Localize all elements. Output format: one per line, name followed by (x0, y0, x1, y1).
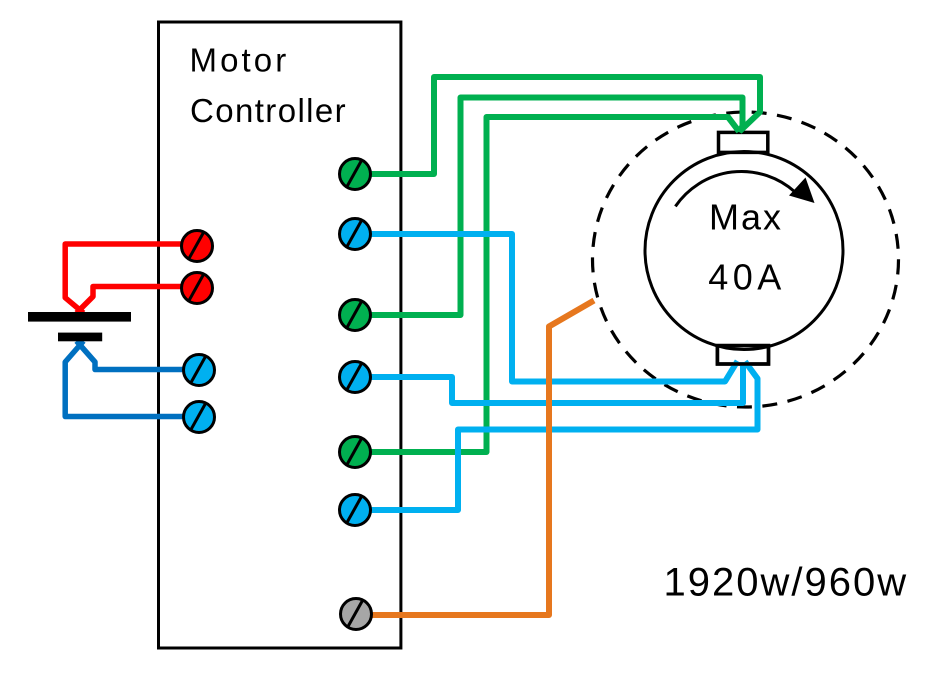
motor bottom brush terminal block (717, 346, 768, 364)
motor rotation arrow arc (675, 171, 795, 206)
wire orange O1 terminal T7 to motor case (368, 301, 594, 616)
terminal P1 red (182, 231, 213, 262)
svg-text:Motor: Motor (190, 42, 290, 79)
motor bottom brush terminal block (border over wires) (717, 346, 768, 364)
terminal T2 blue (340, 219, 371, 250)
wire green G3 terminal T5 to motor+ (368, 117, 739, 452)
terminal P3 blue (184, 355, 215, 386)
svg-text:1920w/960w: 1920w/960w (664, 561, 909, 605)
svg-text:40A: 40A (708, 257, 786, 298)
terminal P4 blue (184, 402, 215, 433)
svg-text:Max: Max (709, 197, 783, 238)
terminal T6 blue (340, 495, 371, 526)
svg-text:Controller: Controller (190, 92, 347, 129)
wire cyan C1 terminal T2 to motor- (368, 234, 738, 382)
terminal T5 green (340, 437, 371, 468)
terminal T3 green (340, 300, 371, 331)
wire green G2 terminal T3 to motor+ (368, 98, 743, 316)
motor top brush terminal block (719, 132, 768, 152)
wire blue battery- to terminal P4 (65, 341, 186, 417)
battery BT1 positive plate (28, 312, 131, 322)
battery BT1 negative plate (58, 333, 102, 342)
terminal P2 red (182, 273, 213, 304)
terminal T4 blue (340, 362, 371, 393)
terminal T1 green (340, 159, 371, 190)
terminal T7 gray (341, 599, 372, 630)
wire red battery+ to terminal P1 (65, 244, 186, 313)
motor body circle M1 (645, 152, 843, 350)
wire cyan C2 terminal T4 to motor- (368, 362, 743, 403)
wire green G1 terminal T1 to motor+ (368, 77, 760, 174)
motor controller box U1 (159, 22, 401, 648)
label Motor Controller (190, 42, 348, 130)
wire blue battery- to terminal P3 (77, 341, 187, 370)
motor rotation arrowhead (789, 178, 815, 204)
wire red battery+ to terminal P2 (77, 287, 187, 314)
motor outer dashed circle (593, 112, 899, 407)
wire cyan C3 terminal T6 to motor- (368, 362, 758, 511)
